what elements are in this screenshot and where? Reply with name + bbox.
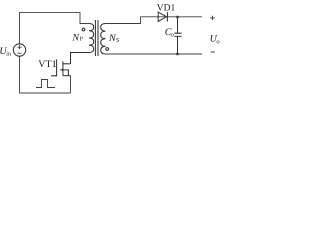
svg-text:o: o	[216, 38, 219, 45]
svg-text:P: P	[80, 37, 84, 43]
svg-text:VT1: VT1	[38, 59, 56, 70]
svg-text:in: in	[6, 51, 11, 57]
svg-text:S: S	[116, 38, 119, 44]
svg-text:o: o	[171, 32, 174, 39]
svg-text:VD1: VD1	[157, 4, 176, 14]
